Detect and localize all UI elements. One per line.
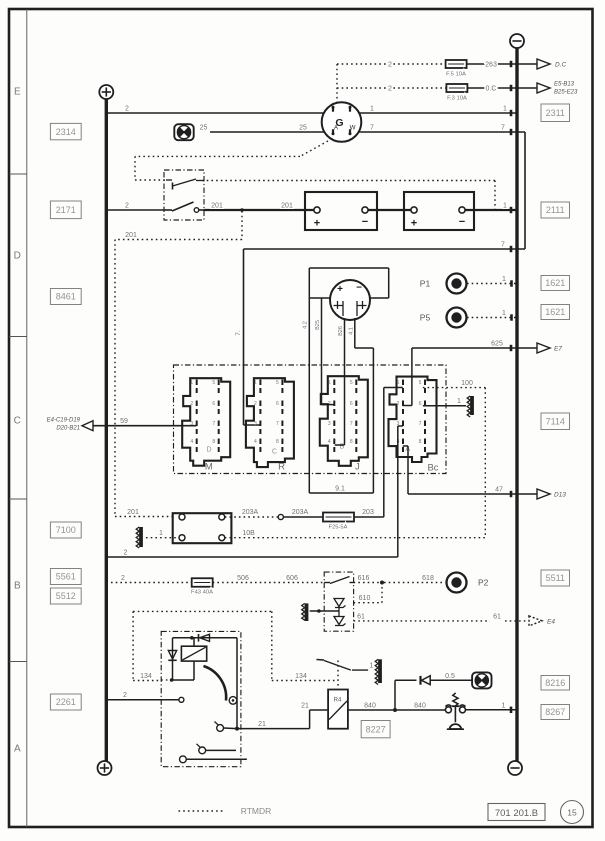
component box 7100 [50, 522, 81, 538]
plus terminal bottom [98, 761, 112, 775]
svg-text:3: 3 [254, 421, 257, 427]
dotted wire to ignition switch aux [135, 179, 166, 181]
svg-text:5: 5 [419, 380, 422, 386]
wire 7 return left [244, 248, 526, 250]
wire 203 drop [383, 388, 385, 518]
wire B25 into J pin2 [322, 404, 335, 406]
svg-text:P2: P2 [478, 577, 489, 587]
dotted 201 branch left [115, 239, 242, 241]
svg-text:7: 7 [501, 242, 505, 249]
battery 1 [305, 192, 377, 230]
svg-text:1: 1 [503, 106, 507, 113]
svg-text:10B: 10B [242, 530, 255, 537]
svg-text:47: 47 [495, 487, 503, 494]
svg-text:7: 7 [370, 125, 374, 132]
ground minus bus (right) [515, 48, 518, 761]
svg-text:701 201.B: 701 201.B [495, 808, 538, 819]
svg-text:C: C [272, 449, 277, 456]
component box 8227 [361, 721, 390, 738]
diode D3 wire [395, 679, 417, 681]
margin tick [9, 173, 27, 175]
resistor R4 [328, 690, 348, 729]
diode D2 [168, 651, 176, 660]
test point P2 [447, 573, 467, 593]
main contact lever [164, 209, 172, 211]
wire 7 alternator W to right [359, 131, 525, 133]
svg-text:4: 4 [328, 439, 331, 445]
legend dotted sample [179, 810, 224, 812]
wire 625 into Bc pin2 [403, 405, 412, 407]
svg-text:2: 2 [397, 401, 400, 407]
svg-text:1: 1 [457, 398, 461, 405]
tick 47 at bus [510, 491, 513, 497]
dotted 618 to P2 [384, 582, 443, 584]
junction 134 [170, 678, 174, 682]
connector enclosure [174, 365, 447, 474]
dotted enclosure top [133, 610, 272, 612]
svg-text:4: 4 [254, 439, 257, 445]
lead 4.2 [308, 298, 310, 493]
svg-text:61: 61 [493, 613, 501, 620]
wire 840 R4 out [348, 709, 393, 711]
svg-text:7: 7 [212, 421, 215, 427]
wire 25 lamp to alternator [210, 131, 324, 133]
component box 8461 [50, 289, 81, 305]
svg-text:2261: 2261 [56, 697, 76, 707]
svg-text:25: 25 [299, 125, 307, 132]
svg-text:1621: 1621 [545, 307, 565, 317]
coil bottom link [193, 661, 195, 680]
svg-text:8: 8 [212, 439, 215, 445]
switch unit 5561 [324, 572, 353, 631]
svg-text:8: 8 [419, 439, 422, 445]
tick 7 at bus [510, 129, 513, 135]
dotted 610 up to junction [381, 583, 383, 603]
warning lamp bottom [472, 672, 491, 688]
svg-text:R4: R4 [334, 698, 342, 704]
svg-text:1: 1 [159, 530, 163, 537]
svg-text:D20-B21: D20-B21 [56, 426, 80, 432]
junction 21 [235, 727, 239, 731]
svg-text:2: 2 [125, 106, 129, 113]
wire 134 inside [161, 679, 171, 681]
connector M [182, 378, 230, 466]
switch lever [324, 582, 330, 584]
svg-text:8461: 8461 [56, 292, 76, 302]
svg-text:8: 8 [350, 439, 353, 445]
svg-text:−: − [356, 283, 362, 294]
wire 1 Bc pin6 to screen [423, 405, 466, 407]
svg-text:201: 201 [127, 509, 139, 516]
svg-text:3: 3 [190, 421, 193, 427]
svg-text:+: + [337, 284, 343, 295]
svg-text:+: + [314, 218, 320, 230]
svg-text:7: 7 [419, 421, 422, 427]
lead 4.1 drop [372, 348, 374, 493]
starter/ignition unit [330, 280, 370, 320]
wire battery1 to battery2 [368, 209, 411, 211]
svg-text:2: 2 [388, 62, 392, 69]
wire 201 switch to battery [204, 209, 314, 211]
svg-text:P1: P1 [420, 278, 431, 288]
wire 2 plus bus to switch [106, 209, 164, 211]
svg-text:201: 201 [211, 203, 223, 210]
relay plate 7100 [173, 513, 232, 543]
svg-text:4.1: 4.1 [348, 327, 354, 335]
aux contact lever [166, 179, 172, 181]
svg-text:−: − [362, 216, 368, 228]
svg-text:2: 2 [121, 575, 125, 582]
svg-text:5561: 5561 [56, 572, 76, 582]
svg-text:2: 2 [254, 401, 257, 407]
dotted 100 drop [484, 388, 486, 538]
svg-text:610: 610 [359, 595, 371, 602]
svg-text:P5: P5 [420, 312, 431, 322]
minus terminal top [510, 34, 524, 48]
svg-text:1621: 1621 [545, 278, 565, 288]
svg-text:0.5: 0.5 [445, 673, 455, 680]
right branch [236, 638, 238, 729]
svg-text:5: 5 [350, 380, 353, 386]
dotted drop to alternator pin [336, 64, 338, 103]
svg-text:6: 6 [276, 401, 279, 407]
svg-text:8267: 8267 [545, 707, 565, 717]
diode D3 [419, 676, 421, 685]
svg-text:263: 263 [485, 62, 497, 69]
svg-text:M: M [205, 462, 213, 473]
svg-text:2: 2 [125, 203, 129, 210]
lead B25 [321, 298, 323, 405]
fuse F5 10A [446, 60, 467, 68]
diode link [338, 607, 340, 617]
svg-text:4: 4 [190, 439, 193, 445]
sheet circle 15 [561, 801, 584, 824]
cigar lighter [445, 707, 451, 713]
svg-text:203: 203 [362, 509, 374, 516]
svg-text:3: 3 [328, 421, 331, 427]
svg-text:7: 7 [276, 421, 279, 427]
diode symbol [334, 599, 344, 607]
dotted wire P1 to bus [467, 283, 517, 285]
svg-text:8216: 8216 [545, 678, 565, 688]
component box 2311 [541, 104, 570, 122]
svg-text:201: 201 [281, 203, 293, 210]
diode D1 [200, 634, 210, 641]
svg-text:2111: 2111 [546, 205, 565, 215]
tick at bus [510, 280, 513, 286]
svg-text:5: 5 [276, 380, 279, 386]
connector J [320, 376, 368, 466]
connector Bc [389, 377, 437, 462]
wire 21 step [237, 728, 310, 730]
dotted enclosure left [132, 611, 134, 680]
fuse F3 10A [446, 84, 467, 92]
wire 625 to arrow [412, 347, 537, 349]
dashed link into R4 [337, 661, 339, 690]
svg-text:F43 40A: F43 40A [191, 590, 213, 596]
relay coil [181, 646, 206, 661]
lead 4.1 [354, 318, 356, 348]
svg-text:1: 1 [397, 380, 400, 386]
alternator G [322, 102, 362, 142]
wire 2 drop [397, 426, 399, 557]
wire 7 drop to connector R [243, 249, 245, 425]
svg-text:618: 618 [422, 575, 434, 582]
dotted drop to wire 1 [494, 181, 496, 211]
svg-text:C: C [14, 416, 21, 427]
svg-text:840: 840 [414, 703, 426, 710]
svg-text:8227: 8227 [366, 724, 386, 734]
fuse F25 5A [323, 513, 354, 522]
component box 8267 [541, 705, 570, 720]
tick 1 at bus [510, 110, 513, 116]
svg-text:+: + [411, 218, 417, 230]
wire 9.1 loop [309, 492, 373, 494]
plus terminal top [99, 85, 113, 99]
svg-text:5: 5 [212, 380, 215, 386]
svg-text:F.5 10A: F.5 10A [446, 72, 466, 78]
dotted wire 506 [213, 582, 325, 584]
svg-text:E: E [14, 87, 21, 98]
svg-text:7100: 7100 [56, 525, 76, 535]
dotted 10B from plate [225, 537, 486, 539]
arrow E4 dashed [529, 616, 542, 626]
wire 59 to connector M [93, 425, 197, 427]
svg-text:134: 134 [295, 673, 307, 680]
svg-text:1: 1 [370, 106, 374, 113]
tick 1 at bus [510, 707, 513, 713]
dotted 203A from plate [225, 516, 278, 518]
svg-text:203A: 203A [292, 509, 309, 516]
wire 2 from plus bus to alternator [106, 112, 323, 114]
dotted 610 row [354, 602, 382, 604]
component box 5512 [50, 588, 81, 604]
wire loop over starter component [309, 267, 388, 269]
margin tick [9, 661, 27, 663]
dotted 61 row [354, 620, 490, 622]
ground link [310, 610, 339, 612]
wire 203 to Bc [354, 516, 384, 518]
svg-text:B25: B25 [315, 320, 321, 330]
svg-text:201: 201 [125, 232, 137, 239]
svg-text:4.2: 4.2 [303, 321, 309, 329]
wire 7 down right of bus [524, 132, 526, 249]
component box 7114 [541, 413, 570, 430]
component box 1621 [541, 276, 570, 291]
svg-text:1: 1 [502, 702, 506, 709]
dotted 134 to switch [272, 680, 338, 682]
svg-text:2311: 2311 [546, 108, 565, 118]
dotted wire 1 to plate [146, 537, 179, 539]
svg-text:7.: 7. [235, 330, 242, 336]
svg-text:625: 625 [491, 341, 503, 348]
junction 201 branch [240, 208, 244, 212]
dotted 61 cont [505, 620, 528, 622]
svg-text:606: 606 [286, 575, 298, 582]
ignition contact [179, 697, 184, 702]
svg-text:506: 506 [237, 575, 249, 582]
diode D3 branch [394, 680, 396, 710]
dotted enclosure right [271, 611, 273, 680]
svg-text:59: 59 [120, 418, 128, 425]
svg-text:203A: 203A [242, 509, 259, 516]
svg-text:E4-C19-D19: E4-C19-D19 [47, 418, 81, 424]
component box 2111 [541, 202, 570, 218]
svg-text:2: 2 [124, 550, 128, 557]
wire 625 from Bc pin2 [411, 348, 413, 406]
svg-text:21: 21 [258, 721, 266, 728]
svg-text:1: 1 [503, 203, 507, 210]
svg-text:B: B [14, 581, 21, 592]
svg-text:1: 1 [370, 663, 374, 670]
svg-text:15: 15 [567, 808, 577, 818]
margin tick [9, 336, 27, 338]
aux contact 1 [199, 747, 206, 754]
wire 0.C [467, 87, 537, 89]
svg-text:2: 2 [123, 692, 127, 699]
dotted 201 branch down [241, 211, 243, 240]
lead B26 [344, 318, 346, 445]
wire 203 Bc pin1 [384, 387, 403, 389]
wire 47 Bc pin4 [403, 445, 408, 447]
wire 840 to lighter [397, 709, 446, 711]
svg-text:1: 1 [254, 380, 257, 386]
switch box 2171 [164, 170, 204, 220]
dotted corner down [134, 156, 136, 180]
screening bar 5561 [305, 603, 309, 621]
wire 1 battery to minus bus [465, 209, 517, 211]
wire 1 alternator to minus bus [359, 112, 517, 114]
svg-text:6: 6 [212, 401, 215, 407]
svg-text:840: 840 [364, 703, 376, 710]
lead 4.1 jog [355, 347, 374, 349]
aux contact 2 [180, 756, 187, 763]
arrow E7 [537, 343, 550, 353]
tick 0.C at bus [510, 85, 513, 91]
wire 2 Bc pin3 [398, 425, 403, 427]
svg-text:7: 7 [350, 421, 353, 427]
screening bar 7100 [139, 527, 143, 547]
svg-text:RTMDR: RTMDR [241, 806, 272, 816]
warning lamp charge [174, 124, 193, 140]
dotted 201 drop to 7100 [114, 240, 116, 517]
connector R [246, 378, 294, 467]
svg-text:616: 616 [358, 575, 370, 582]
tick 1 at bus [510, 207, 513, 213]
junction 618 [380, 581, 384, 585]
svg-text:2: 2 [190, 401, 193, 407]
wire 47 drop [407, 446, 409, 494]
drawing number box [488, 804, 545, 821]
svg-text:−: − [459, 216, 465, 228]
wire 2 dotted to fuse F3 [337, 87, 446, 89]
wire 263 [467, 63, 537, 65]
wire 7 into R pin 3 [244, 424, 261, 426]
rotor contact [229, 697, 237, 705]
battery 2 [404, 192, 474, 230]
relay assembly box [161, 631, 241, 766]
dotted 201 into plate [115, 516, 173, 518]
component box 8216 [541, 676, 570, 691]
svg-text:Bc: Bc [427, 463, 438, 474]
dotted wire 2 to fuse F43 [106, 582, 191, 584]
svg-text:D.C: D.C [555, 62, 567, 69]
component box 2261 [50, 694, 81, 710]
start contact [217, 725, 224, 732]
wire 47 to arrow [408, 493, 537, 495]
svg-text:J: J [355, 462, 360, 473]
svg-text:2171: 2171 [56, 205, 76, 215]
screening bar glow [378, 659, 382, 683]
svg-text:5512: 5512 [56, 591, 76, 601]
svg-text:R: R [278, 462, 285, 473]
svg-text:E7: E7 [554, 346, 562, 353]
svg-text:E4: E4 [547, 618, 555, 625]
svg-text:9.1: 9.1 [335, 486, 345, 493]
arrow E5-B13 [537, 83, 550, 93]
dotted diagonal from A pin [300, 141, 328, 156]
svg-text:1: 1 [502, 310, 506, 317]
svg-text:B26: B26 [338, 326, 344, 336]
margin tick [9, 498, 27, 500]
component box 5561 [50, 569, 81, 585]
dotted 134 into relay [133, 680, 161, 682]
svg-text:134: 134 [140, 673, 152, 680]
component box 1621 [541, 305, 570, 320]
svg-text:2: 2 [388, 86, 392, 93]
svg-text:F25-5A: F25-5A [328, 525, 347, 531]
dotted 100 from Bc pin5 [423, 387, 485, 389]
wire 203A [283, 516, 323, 518]
svg-text:D: D [206, 447, 211, 454]
svg-text:61: 61 [357, 613, 365, 620]
svg-text:B25-E23: B25-E23 [554, 90, 578, 96]
dotted 616 [354, 582, 380, 584]
minus terminal bottom [508, 761, 522, 775]
component box 2314 [50, 123, 81, 139]
svg-text:6: 6 [419, 401, 422, 407]
component box 5511 [541, 570, 570, 586]
dotted wire aux contact to battery [202, 180, 495, 182]
dotted wire P5 to bus [467, 317, 517, 319]
svg-text:E5-B13: E5-B13 [554, 82, 575, 88]
tick at bus [510, 314, 513, 320]
wire 2 to ignition contact [106, 699, 179, 701]
glow switch [317, 659, 325, 662]
battery plus bus (left) [105, 99, 108, 761]
arrow D.C [537, 59, 550, 69]
svg-text:0.C: 0.C [486, 86, 497, 93]
junction [190, 636, 194, 640]
wire 1 to minus bus [466, 709, 518, 711]
dotted wire to left [135, 155, 300, 157]
diode symbol [334, 617, 344, 625]
svg-text:2314: 2314 [56, 127, 76, 137]
fuse F43 40A [192, 578, 213, 587]
svg-text:1: 1 [328, 380, 331, 386]
svg-text:D: D [14, 251, 21, 262]
margin line [26, 9, 28, 827]
connector point [278, 514, 283, 519]
svg-text:F.3 10A: F.3 10A [447, 96, 467, 102]
svg-text:100: 100 [461, 380, 473, 387]
svg-text:A: A [14, 744, 21, 755]
rotary arc [204, 666, 227, 701]
arrow D13 [537, 489, 550, 499]
svg-text:1: 1 [502, 276, 506, 283]
wire 2 dotted to fuse F5 [337, 63, 446, 65]
component box 2171 [50, 201, 81, 219]
